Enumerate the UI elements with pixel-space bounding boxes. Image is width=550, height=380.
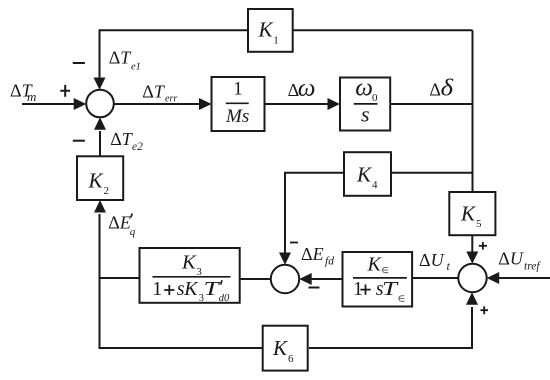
svg-text:K: K xyxy=(460,202,476,226)
svg-text:3: 3 xyxy=(197,267,202,278)
svg-text:s: s xyxy=(361,102,370,127)
svg-text:∈: ∈ xyxy=(398,293,406,303)
svg-text:fd: fd xyxy=(325,256,334,268)
svg-text:t: t xyxy=(447,259,451,273)
svg-text:ΔT: ΔT xyxy=(110,129,134,149)
svg-text:ΔU: ΔU xyxy=(419,250,445,270)
svg-text:e2: e2 xyxy=(132,141,143,153)
svg-text:δ: δ xyxy=(441,76,454,102)
svg-text:4: 4 xyxy=(372,179,378,191)
svg-text:Δ: Δ xyxy=(429,80,441,100)
svg-text:ω: ω xyxy=(355,75,373,102)
svg-text:K: K xyxy=(181,252,197,274)
svg-text:1: 1 xyxy=(152,278,162,300)
svg-text:e1: e1 xyxy=(131,62,141,73)
svg-text:d0: d0 xyxy=(219,293,230,304)
svg-text:K: K xyxy=(88,168,104,192)
svg-text:m: m xyxy=(27,89,36,104)
svg-text:q: q xyxy=(130,226,136,238)
svg-text:K: K xyxy=(272,336,288,360)
svg-text:ΔE: ΔE xyxy=(301,244,324,264)
svg-text:K: K xyxy=(356,162,372,186)
svg-text:ΔT: ΔT xyxy=(109,47,133,67)
svg-text:1: 1 xyxy=(353,278,363,300)
svg-text:ΔT: ΔT xyxy=(142,81,166,101)
svg-text:ΔE: ΔE xyxy=(108,213,131,233)
svg-text:2: 2 xyxy=(104,185,110,197)
svg-text:0: 0 xyxy=(372,92,378,104)
svg-text:ΔU: ΔU xyxy=(498,249,524,269)
svg-text:tref: tref xyxy=(524,261,541,273)
svg-text:err: err xyxy=(165,93,177,104)
svg-text:Ms: Ms xyxy=(225,106,249,127)
svg-text:K: K xyxy=(367,254,383,276)
svg-text:1: 1 xyxy=(273,35,279,47)
svg-text:5: 5 xyxy=(476,218,482,230)
svg-text:1: 1 xyxy=(233,79,243,100)
svg-text:ω: ω xyxy=(298,75,316,102)
svg-text:K: K xyxy=(258,18,274,42)
svg-text:6: 6 xyxy=(288,353,294,365)
svg-text:∈: ∈ xyxy=(382,265,390,275)
svg-text:K: K xyxy=(183,278,199,300)
